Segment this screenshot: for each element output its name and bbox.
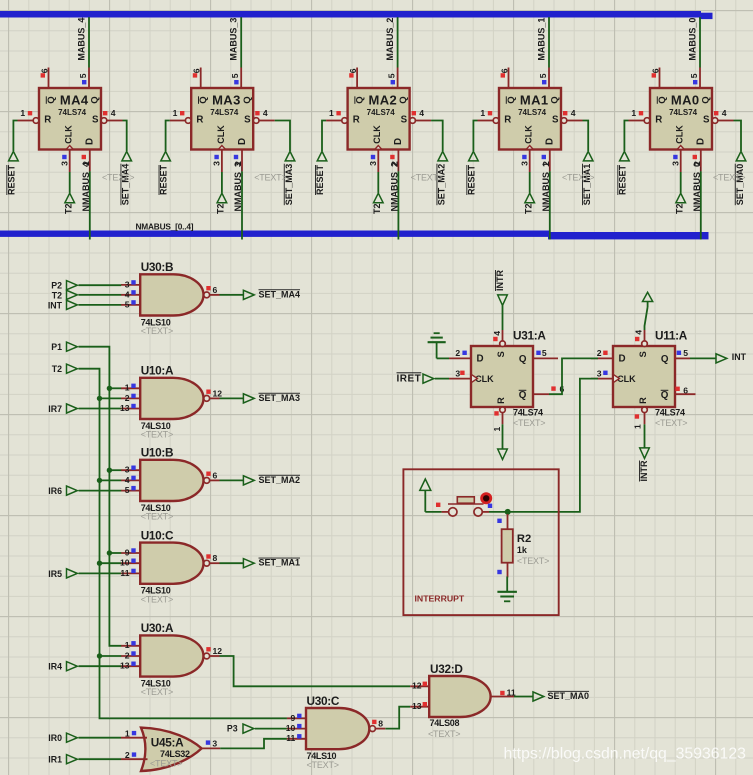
svg-text:Q: Q [657, 96, 668, 104]
svg-text:MA4: MA4 [60, 93, 89, 108]
junction T2/U10:B.4 [97, 478, 102, 483]
svg-text:12: 12 [213, 388, 223, 398]
wire MABUS_1 (MA1.Q to top bus) [548, 17, 550, 67]
wire IR6 to U10:B pin 5 [79, 490, 122, 492]
svg-text:SET_MA2: SET_MA2 [259, 475, 301, 485]
svg-text:R: R [655, 114, 662, 125]
svg-text:2: 2 [125, 750, 130, 760]
terminal arrow (up) above U11:A [643, 292, 653, 307]
wire T2 rail (vertical) [79, 369, 287, 719]
svg-text:NMABUS_2: NMABUS_2 [390, 162, 400, 212]
svg-text:11: 11 [120, 568, 129, 578]
wire arrow to push button [425, 511, 441, 513]
svg-text:U10:B: U10:B [141, 446, 174, 460]
U30:C input pin 11 stub [286, 733, 306, 743]
svg-text:Q: Q [242, 96, 253, 104]
terminal IRET (input) [397, 373, 434, 384]
svg-text:3: 3 [125, 465, 130, 475]
svg-text:3: 3 [597, 368, 602, 378]
svg-text:1: 1 [20, 108, 25, 118]
terminal RESET (input, MA0) [617, 151, 629, 195]
wire NMABUS_2 (MA2.D to lower bus) [397, 171, 399, 239]
bus NMABUS [0..4] right segment [548, 232, 709, 239]
U32:D input pin 13 stub [410, 701, 429, 711]
wire U31:A.Q-bar to U11:A.D [549, 358, 598, 394]
svg-text:T2: T2 [523, 203, 533, 214]
svg-text:8: 8 [378, 719, 383, 729]
svg-text:MABUS_0: MABUS_0 [687, 18, 697, 61]
svg-text:6: 6 [348, 68, 358, 73]
svg-text:6: 6 [650, 68, 660, 73]
NAND gate U10:A 74LS10 [140, 364, 209, 440]
svg-text:4: 4 [263, 108, 268, 118]
MA4 pin 6 Q-bar stub [39, 68, 49, 89]
terminal T2 (input) at y=294.9 [52, 290, 78, 300]
svg-text:D: D [393, 138, 404, 145]
wire IR0 to U45:A pin 1 [79, 737, 122, 739]
svg-text:4: 4 [492, 331, 502, 336]
svg-text:INT: INT [732, 352, 747, 362]
U45:A input pin 1 stub [121, 729, 147, 739]
wire U30:A.12 to U32:D.12 [220, 656, 411, 686]
INTERRUPT box [403, 469, 558, 615]
svg-text:U10:C: U10:C [141, 528, 174, 542]
svg-text:R: R [504, 114, 511, 125]
svg-text:S: S [401, 114, 408, 125]
U45:A output pin 3 stub [202, 738, 221, 748]
svg-text:74LS74: 74LS74 [513, 407, 543, 417]
OR gate U45:A 74LS32 [141, 728, 202, 771]
wire MA1.S to SET_MA1 terminal [583, 121, 589, 152]
terminal IR1 (input) at y=759.2 [48, 755, 77, 765]
svg-text:6: 6 [213, 285, 218, 295]
wire ground to U31:A pin 2 [437, 357, 449, 359]
U30:C input pin 10 stub [286, 723, 306, 733]
svg-text:CLK: CLK [524, 125, 534, 144]
svg-text:1: 1 [125, 729, 130, 739]
svg-text:<TEXT>: <TEXT> [517, 556, 549, 566]
svg-text:4: 4 [125, 289, 130, 299]
wire P1 rail to U10:A pin 1 [109, 387, 121, 389]
svg-text:3: 3 [212, 161, 222, 166]
terminal P2 (input) at y=285.2 [51, 281, 77, 291]
U31:A pin 5 number + state [536, 348, 547, 358]
MA1 pin 5 Q stub [538, 68, 549, 89]
svg-text:MA0: MA0 [671, 93, 700, 108]
svg-text:5: 5 [538, 73, 548, 78]
wire MA2.CLK to T2 terminal [377, 172, 379, 193]
wire NAND output to SET_MA4 terminal [220, 294, 244, 296]
U32:D input pin 12 stub [410, 681, 429, 691]
svg-text:3: 3 [455, 368, 460, 378]
MA4 pin 4 S stub [101, 108, 122, 123]
wire T2 rail to U10:B pin 4 [100, 479, 122, 481]
svg-text:S: S [92, 114, 99, 125]
svg-text:6: 6 [499, 68, 509, 73]
MA3 pin 6 Q-bar stub [192, 68, 202, 89]
U31:A pin 2 number + state [455, 348, 466, 358]
MA1 pin 4 S stub [561, 108, 582, 123]
svg-text:SET_MA0: SET_MA0 [548, 691, 590, 701]
wire INT to U30:B pin 5 [79, 304, 122, 306]
svg-text:4: 4 [419, 108, 424, 118]
svg-text:Q: Q [550, 96, 561, 104]
svg-text:1: 1 [173, 108, 178, 118]
svg-text:S: S [703, 114, 710, 125]
wire MA1.CLK to T2 terminal [529, 172, 531, 193]
wire R2 to ground [506, 577, 508, 592]
svg-text:Q: Q [398, 96, 409, 104]
wire T2 rail to U10:A pin 2 [100, 397, 122, 399]
svg-text:U30:A: U30:A [141, 621, 174, 635]
MA1 pin 6 Q-bar stub [499, 68, 509, 89]
svg-text:U32:D: U32:D [430, 662, 463, 676]
wire U31:A pin 1 to interrupt arrow [502, 424, 504, 449]
svg-text:Q: Q [46, 96, 57, 104]
MA2 pin 4 S stub [410, 108, 431, 123]
svg-text:T2: T2 [372, 203, 382, 214]
svg-text:4: 4 [634, 330, 644, 335]
MA3 pin 5 Q stub [230, 68, 241, 89]
MA1 CLK edge marker [526, 146, 533, 150]
svg-text:MABUS_3: MABUS_3 [229, 18, 239, 61]
svg-text:IR1: IR1 [48, 755, 62, 765]
U10:C input pin 10 stub [120, 558, 140, 568]
U11:A pin 5 Q stub [674, 357, 690, 359]
U31:A pin 1 number + state [492, 411, 502, 431]
wire MA0.CLK to T2 terminal [680, 172, 682, 193]
svg-text:74LS74: 74LS74 [210, 108, 239, 117]
flip-flop U11:A 74LS74 [613, 329, 688, 428]
MA4 pin 5 Q stub [78, 68, 89, 89]
svg-text:IRET: IRET [397, 373, 422, 384]
bus MABUS end segment [699, 13, 713, 19]
wire P1 rail to U10:C pin 9 [109, 552, 121, 554]
wire IRET to U31:A pin 3 [435, 378, 449, 380]
MA4 pin 2 D stub [81, 150, 91, 172]
terminal RESET (input, MA3) [159, 151, 171, 195]
terminal SET_MA1 (output) [243, 558, 300, 568]
U31:A pin 1 R stub [500, 407, 506, 424]
U11:A pin 5 number + state [677, 348, 689, 358]
MA2 pin 2 D stub [390, 150, 400, 172]
svg-text:NMABUS_1: NMABUS_1 [541, 162, 551, 212]
svg-text:2: 2 [455, 348, 460, 358]
NAND gate U30:B 74LS10 [140, 260, 209, 336]
svg-text:INT: INT [48, 300, 63, 310]
svg-text:4: 4 [722, 108, 727, 118]
bus NMABUS [0..4] (lower horizontal blue bus, left segment) [0, 231, 550, 237]
svg-text:4: 4 [125, 475, 130, 485]
svg-text:3: 3 [125, 279, 130, 289]
terminal T2 (clock input of MA0) [674, 193, 685, 214]
svg-text:S: S [552, 114, 559, 125]
MA3 pin 1 R stub [170, 108, 191, 123]
svg-text:13: 13 [412, 701, 422, 711]
MA0 pin 2 D stub [692, 150, 702, 172]
terminal INTR (below U11:A) [639, 448, 649, 482]
svg-text:11: 11 [286, 733, 295, 743]
svg-text:R2: R2 [517, 533, 531, 545]
wire U11:A.Q to INT terminal [690, 357, 716, 359]
MA0 pin 5 Q stub [689, 68, 700, 89]
wire MA4.R to RESET terminal [13, 121, 17, 152]
wire NMABUS_4 (MA4.D to lower bus) [89, 171, 91, 239]
MA3 pin 4 S stub [253, 108, 274, 123]
wire INTR to U31:A pin 4 [502, 305, 504, 330]
svg-text:3: 3 [59, 161, 69, 166]
svg-text:5: 5 [689, 73, 699, 78]
flip-flop U31:A 74LS74 [471, 329, 546, 428]
R2 bottom pin stub [507, 563, 509, 578]
wire P3 to U30:C pin 10 [255, 728, 287, 730]
svg-text:SET_MA4: SET_MA4 [121, 164, 131, 206]
svg-text:6: 6 [39, 68, 49, 73]
U10:C input pin 9 stub [121, 547, 140, 557]
wire MA4.CLK to T2 terminal [69, 172, 71, 193]
terminal SET_MA3 (output, below MA3) [284, 151, 295, 205]
svg-text:IR4: IR4 [48, 662, 62, 672]
wire MABUS_2 (MA2.Q to top bus) [397, 17, 399, 67]
terminal RESET (input, MA1) [466, 151, 478, 195]
svg-text:1: 1 [480, 108, 485, 118]
MA2 pin 5 Q stub [387, 68, 398, 89]
wire button to junction [489, 511, 508, 513]
svg-text:T2: T2 [52, 290, 62, 300]
svg-text:SET_MA4: SET_MA4 [259, 289, 301, 299]
svg-text:IR6: IR6 [48, 486, 62, 496]
wire arrow to U11:A pin 4 (angled) [645, 307, 648, 330]
svg-text:1k: 1k [517, 545, 528, 555]
flip-flop MA0 74LS74 (rotated) [650, 88, 712, 150]
wire IR4 to U30:A pin 13 [79, 665, 122, 667]
U31:A pin 3 number + state [455, 368, 464, 378]
U30:C output pin 8 stub [372, 719, 385, 729]
terminal SET_MA0 (output) [533, 691, 589, 701]
junction P1/U10:B.3 [107, 468, 112, 473]
svg-text:T2: T2 [674, 203, 684, 214]
wire MABUS_4 (MA4.Q to top bus) [88, 17, 90, 67]
svg-text:<TEXT>: <TEXT> [513, 418, 545, 428]
svg-text:IR7: IR7 [48, 404, 62, 414]
terminal T2 (clock input of MA2) [372, 193, 383, 214]
U30:C input pin 9 stub [287, 713, 306, 723]
push button (left pin) [442, 508, 457, 516]
wire IR7 to U10:A pin 13 [79, 408, 122, 410]
svg-text:<TEXT>: <TEXT> [150, 759, 182, 769]
svg-text:P1: P1 [51, 342, 62, 352]
wire MA2.R to RESET terminal [322, 121, 326, 152]
svg-text:MABUS_1: MABUS_1 [536, 18, 546, 61]
wire MA4.S to SET_MA4 terminal [123, 121, 127, 152]
U10:B input pin 5 stub [121, 485, 140, 495]
junction T2/U30:A.2 [97, 653, 102, 658]
svg-text:3: 3 [519, 161, 529, 166]
state square above R2 [497, 519, 501, 523]
svg-text:<TEXT>: <TEXT> [141, 594, 173, 604]
svg-text:U11:A: U11:A [655, 329, 688, 343]
U10:A output pin 12 stub [206, 388, 222, 398]
svg-text:Q: Q [661, 354, 669, 365]
terminal T2 (input) at y=368.7 [52, 364, 78, 374]
svg-text:RESET: RESET [159, 164, 169, 195]
svg-text:IR0: IR0 [48, 733, 62, 743]
U10:B output pin 6 stub [206, 470, 219, 480]
svg-text:INTERRUPT: INTERRUPT [415, 594, 465, 604]
terminal IR5 (input) at y=573.4 [48, 569, 77, 579]
svg-text:SET_MA1: SET_MA1 [582, 164, 592, 206]
MA1 pin 2 D stub [541, 150, 551, 172]
R2 top pin stub [507, 514, 509, 529]
U30:B input pin 5 stub [121, 299, 140, 309]
MA4 CLK edge marker [66, 146, 73, 150]
wire T2 to U30:B pin 4 [79, 294, 122, 296]
svg-text:<TEXT>: <TEXT> [428, 729, 460, 739]
svg-text:9: 9 [291, 713, 296, 723]
svg-text:10: 10 [286, 723, 296, 733]
svg-text:13: 13 [120, 661, 130, 671]
svg-text:<TEXT>: <TEXT> [562, 172, 594, 182]
MA2 CLK edge marker [375, 146, 382, 150]
svg-text:Q: Q [90, 96, 101, 104]
svg-text:74LS74: 74LS74 [367, 108, 396, 117]
NAND gate U10:B 74LS10 [140, 446, 209, 522]
svg-text:5: 5 [125, 485, 130, 495]
terminal P1 (input) at y=346.7 [51, 342, 77, 352]
terminal SET_MA3 (output) [243, 393, 300, 403]
NAND gate U10:C 74LS10 [140, 528, 209, 604]
button state squares [436, 503, 492, 508]
wire MA1.R to RESET terminal [473, 121, 477, 152]
MA3 CLK edge marker [218, 146, 225, 150]
svg-text:NMABUS_4: NMABUS_4 [81, 162, 91, 212]
svg-text:T2: T2 [216, 203, 226, 214]
svg-text:6: 6 [213, 470, 218, 480]
NAND gate U30:C 74LS10 [306, 694, 375, 770]
svg-text:RESET: RESET [6, 164, 16, 195]
U30:A output pin 12 stub [206, 646, 222, 656]
svg-text:S: S [244, 114, 251, 125]
svg-text:R: R [196, 114, 203, 125]
svg-text:5: 5 [125, 299, 130, 309]
svg-text:74LS74: 74LS74 [518, 108, 547, 117]
U30:B output pin 6 stub [206, 285, 219, 295]
U11:A pin 6 number + state [675, 386, 688, 396]
U11:A pin 4 number + state [634, 330, 644, 341]
svg-text:NMABUS_[0..4]: NMABUS_[0..4] [136, 222, 194, 232]
svg-text:<TEXT>: <TEXT> [141, 326, 173, 336]
U11:A pin 6 Q-bar stub (unconnected) [674, 393, 696, 395]
MA0 pin 6 Q-bar stub [650, 68, 660, 89]
svg-text:SET_MA1: SET_MA1 [259, 558, 301, 568]
bus MABUS (top horizontal blue bus) [0, 11, 701, 18]
svg-text:R: R [44, 114, 51, 125]
U11:A pin 3 number + state [597, 368, 608, 378]
svg-text:<TEXT>: <TEXT> [254, 172, 286, 182]
svg-text:MA2: MA2 [368, 93, 397, 108]
svg-text:SET_MA3: SET_MA3 [259, 393, 301, 403]
wire P2 to U30:B pin 3 [79, 284, 122, 286]
U45:A input pin 2 stub [121, 750, 148, 760]
MA2 pin 1 R stub [326, 108, 347, 123]
U11:A pin 4 S stub [642, 330, 648, 347]
U30:A input pin 13 stub [120, 661, 140, 671]
U11:A CLK edge marker [613, 374, 619, 382]
svg-text:3: 3 [670, 161, 680, 166]
svg-text:R: R [496, 397, 506, 404]
svg-text:<TEXT>: <TEXT> [655, 418, 687, 428]
svg-text:Q: Q [198, 96, 209, 104]
U10:A input pin 1 stub [121, 383, 140, 393]
NAND gate U30:A 74LS10 [140, 621, 209, 697]
svg-text:6: 6 [192, 68, 202, 73]
svg-text:1: 1 [492, 427, 502, 432]
svg-text:INTR: INTR [639, 460, 649, 481]
U10:A input pin 2 stub [121, 393, 140, 403]
svg-text:D: D [237, 138, 248, 145]
svg-text:74LS74: 74LS74 [669, 108, 698, 117]
svg-text:74LS74: 74LS74 [58, 108, 87, 117]
svg-text:CLK: CLK [675, 125, 685, 144]
wire MA3.CLK to T2 terminal [221, 172, 223, 193]
svg-text:CLK: CLK [216, 125, 226, 144]
svg-text:1: 1 [125, 640, 130, 650]
svg-text:CLK: CLK [64, 125, 74, 144]
U31:A pin 6 number + state [551, 384, 564, 394]
svg-text:NMABUS_3: NMABUS_3 [233, 162, 243, 212]
svg-text:T2: T2 [63, 203, 73, 214]
svg-text:74LS08: 74LS08 [430, 718, 460, 728]
terminal SET_MA1 (output, below MA1) [582, 151, 593, 205]
svg-text:Q: Q [701, 96, 712, 104]
svg-text:D: D [477, 354, 484, 365]
svg-text:U31:A: U31:A [513, 329, 546, 343]
wire T2 rail to U10:C pin 10 [100, 562, 122, 564]
U10:B input pin 4 stub [121, 475, 140, 485]
wire MA0.R to RESET terminal [624, 121, 628, 152]
junction T2/U10:C.10 [97, 561, 102, 566]
svg-text:R: R [638, 397, 648, 404]
svg-text:MABUS_4: MABUS_4 [76, 18, 86, 61]
wire NAND output to SET_MA3 terminal [220, 397, 244, 399]
MA4 pin 1 R stub [18, 108, 39, 123]
svg-text:D: D [85, 138, 96, 145]
U31:A pin 2 D stub [449, 357, 471, 359]
svg-text:U30:C: U30:C [307, 694, 340, 708]
wire MABUS_3 (MA3.Q to top bus) [240, 17, 242, 67]
svg-text:RESET: RESET [315, 164, 325, 195]
U11:A pin 1 R stub [642, 407, 648, 424]
wire MA2.S to SET_MA2 terminal [431, 121, 443, 152]
terminal SET_MA2 (output, below MA2) [437, 151, 448, 205]
svg-text:4: 4 [111, 108, 116, 118]
wire NMABUS_1 (MA1.D to lower bus) [549, 171, 551, 239]
junction P1/U10:C.9 [107, 550, 112, 555]
svg-text:1: 1 [329, 108, 334, 118]
wire IR1 to U45:A pin 2 [79, 758, 122, 760]
svg-text:NMABUS_0: NMABUS_0 [692, 162, 702, 212]
U31:A pin 5 Q stub (unconnected) [533, 357, 558, 359]
svg-text:2: 2 [125, 650, 130, 660]
svg-text:<TEXT>: <TEXT> [713, 172, 745, 182]
U11:A pin 2 number + state [597, 348, 608, 358]
wire U30:C.8 to U32:D.13 [385, 707, 410, 729]
MA1 pin 1 R stub [478, 108, 499, 123]
svg-text:U10:A: U10:A [141, 364, 174, 378]
state square below R2 [497, 570, 501, 574]
terminal INT (output) [716, 352, 747, 363]
U31:A pin 4 number + state [492, 331, 502, 341]
